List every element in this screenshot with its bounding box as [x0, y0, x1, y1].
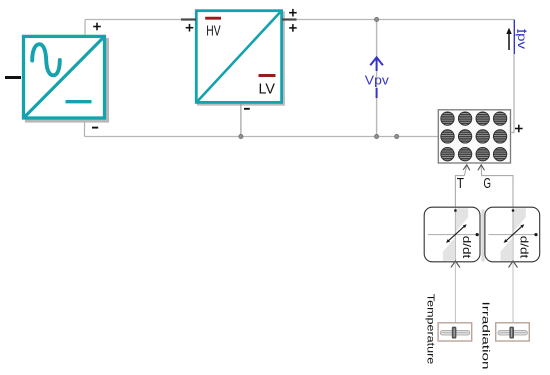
rate limiter 1	[424, 207, 480, 262]
arrow into rate limiter 2	[509, 261, 518, 268]
slider Temperature	[438, 323, 472, 341]
svg-text:d/dt: d/dt	[460, 236, 472, 258]
Ipv arrow	[508, 33, 510, 50]
label + right lower	[289, 24, 297, 32]
svg-text:T: T	[457, 175, 464, 192]
converter left port stub	[181, 18, 196, 20]
arrow into rate limiter 1	[451, 261, 460, 268]
svg-text:Ipv: Ipv	[515, 29, 529, 49]
shadow between rate limiters	[481, 210, 484, 262]
inverter U1	[24, 36, 108, 121]
wire converter bottom	[240, 104, 242, 137]
svg-text:Temperature: Temperature	[424, 294, 435, 365]
label LV	[259, 74, 276, 77]
label + converter left port	[186, 24, 194, 32]
wire inverter bottom	[84, 120, 86, 137]
T input wire	[455, 165, 469, 208]
rate limiter 2	[485, 207, 540, 262]
Vpv measurement wire	[376, 20, 378, 137]
label HV	[205, 17, 221, 20]
converter U2 HV/LV	[196, 11, 283, 105]
label - converter bottom port	[244, 108, 250, 110]
Vpv arrow	[370, 57, 383, 98]
junction Vpv top	[375, 17, 379, 21]
label + right upper	[289, 9, 297, 17]
label + PV right port	[515, 125, 523, 133]
Ipv measurement	[513, 20, 515, 55]
svg-text:d/dt: d/dt	[517, 236, 529, 258]
inverter left port stub	[5, 76, 21, 79]
slider Irradiation	[496, 323, 530, 341]
wire slider1 to rate limiter 1	[454, 262, 456, 323]
junction Vpv bottom	[375, 134, 379, 138]
converter right port stub	[282, 18, 297, 20]
svg-text:G: G	[484, 175, 492, 192]
junction bottom bus	[395, 134, 399, 138]
wire top bus	[85, 19, 514, 21]
svg-text:LV: LV	[259, 80, 276, 97]
label + inverter top port	[93, 23, 101, 31]
G input wire	[478, 165, 513, 208]
wire right bus	[512, 20, 515, 133]
svg-text:HV: HV	[206, 22, 220, 39]
svg-text:Vpv: Vpv	[365, 72, 390, 87]
PV array	[438, 110, 522, 163]
svg-text:Irradiation: Irradiation	[479, 302, 490, 370]
wire slider2 to rate limiter 2	[512, 262, 514, 323]
wire inverter top	[84, 20, 86, 36]
label - inverter bottom port	[92, 127, 98, 129]
junction converter bottom	[239, 134, 243, 138]
wire bottom bus	[85, 136, 439, 138]
